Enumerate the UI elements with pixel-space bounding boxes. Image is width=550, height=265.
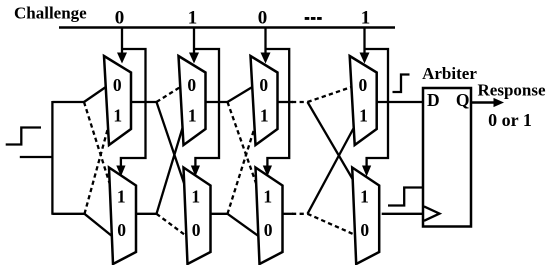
wire stage2 top output: [206, 101, 228, 103]
wire select drop stage 2: [193, 28, 195, 55]
svg-text:1: 1: [113, 105, 122, 125]
wire stage3 bottom output: [283, 213, 294, 215]
wire stage1 bottom output: [136, 213, 157, 215]
wire stage2-stage3 crossing top-to-bottom cross (unselected, dashed): [228, 102, 257, 184]
wire top rail into stage 1: [52, 101, 84, 103]
svg-text:D: D: [427, 90, 440, 110]
wire stage3-stage4 crossing bottom-to-top cross (selected): [308, 128, 354, 214]
svg-text:0: 0: [192, 220, 201, 240]
clock triangle of flip-flop: [424, 206, 440, 220]
svg-text:0 or 1: 0 or 1: [488, 110, 532, 130]
rising-edge pulse symbol at input: [6, 128, 41, 145]
wire stage3-stage4 crossing top-to-bottom cross (selected): [308, 102, 356, 184]
select arrowhead into M3b: [263, 166, 272, 177]
select arrowhead into M2b: [191, 166, 200, 177]
wire select hook to M4b: [365, 49, 389, 167]
wire stage2-stage3 crossing bottom-to-top cross (unselected, dashed): [228, 128, 255, 214]
wire top rail continuation dots: [292, 101, 308, 103]
wire input crossing top-to-top (selected): [84, 87, 106, 102]
svg-text:0: 0: [359, 75, 368, 95]
svg-text:Challenge: Challenge: [14, 4, 87, 23]
svg-text:0: 0: [117, 220, 126, 240]
wire stage3-stage4 crossing bottom-to-bottom (unselected, dashed): [308, 214, 358, 236]
mux M1a (top path) stage 1: [104, 56, 131, 145]
svg-text:Response: Response: [478, 80, 546, 99]
wire stage1 top output: [131, 101, 157, 103]
select arrowhead into M3a: [261, 53, 271, 64]
wire input splitter vertical: [51, 101, 53, 215]
mux M4a (top path) stage 4: [350, 56, 377, 145]
svg-text:1: 1: [359, 105, 368, 125]
wire select drop stage 4: [363, 28, 365, 55]
wire stage1-stage2 crossing top-to-bottom cross (selected): [157, 102, 185, 184]
svg-text:1: 1: [188, 8, 198, 29]
wire response output: [471, 101, 495, 104]
wire stage2-stage3 crossing bottom-to-bottom (selected): [228, 214, 259, 236]
rising-edge pulse symbol at clock input: [388, 188, 423, 206]
svg-text:1: 1: [117, 186, 126, 206]
svg-text:Q: Q: [456, 90, 470, 110]
svg-text:1: 1: [188, 105, 197, 125]
svg-text:0: 0: [115, 8, 125, 29]
mux M2a (top path) stage 2: [179, 56, 206, 145]
response arrowhead: [494, 98, 505, 107]
wire input crossing bottom-to-bottom (selected): [85, 214, 112, 236]
wire stage3-stage4 crossing top-to-top (unselected, dashed): [308, 87, 352, 102]
mux M4b (bottom path) stage 4: [352, 168, 379, 265]
select arrowhead into M2a: [189, 53, 199, 64]
wire select hook to M3b: [266, 49, 290, 167]
svg-text:0: 0: [187, 75, 196, 95]
svg-text:1: 1: [263, 186, 272, 206]
mux M2b (bottom path) stage 2: [184, 168, 211, 265]
svg-text:0: 0: [258, 8, 268, 29]
svg-text:1: 1: [191, 186, 200, 206]
wire last bottom output to clock: [382, 213, 423, 215]
wire bottom rail into stage 1: [52, 213, 84, 215]
wire stage2-stage3 crossing top-to-top (selected): [228, 87, 253, 102]
wire select drop stage 3: [264, 28, 266, 55]
mux M1b (bottom path) stage 1: [109, 168, 136, 265]
rising-edge pulse symbol at D input: [393, 75, 410, 93]
svg-text:1: 1: [360, 186, 369, 206]
svg-text:0: 0: [264, 220, 273, 240]
select arrowhead into M4b: [362, 166, 371, 177]
wire input crossing bottom-to-top cross (unselected, dashed): [85, 128, 109, 214]
svg-text:0: 0: [360, 220, 369, 240]
wire bottom rail continuation dots: [292, 213, 308, 215]
svg-text:1: 1: [260, 105, 269, 125]
mux M3a (top path) stage 3: [251, 56, 278, 145]
wire select drop stage 1: [121, 28, 123, 55]
arbiter D flip-flop box: [423, 88, 471, 227]
svg-text:Arbiter: Arbiter: [422, 64, 477, 83]
wire stage1-stage2 crossing bottom-to-top cross (selected): [157, 128, 183, 214]
select arrowhead into M1b: [116, 166, 125, 177]
ellipsis dashes on challenge row: [305, 17, 310, 20]
wire input stub: [20, 156, 53, 158]
wire select hook to M1b: [121, 49, 146, 167]
wire last top output to D: [377, 101, 423, 103]
wire challenge bus: [59, 26, 395, 29]
mux M3b (bottom path) stage 3: [256, 168, 283, 265]
wire input crossing top-to-bottom cross (unselected, dashed): [84, 102, 110, 184]
svg-text:0: 0: [259, 75, 268, 95]
svg-text:0: 0: [113, 75, 122, 95]
wire select hook to M2b: [194, 49, 219, 167]
wire stage1-stage2 crossing top-to-top (unselected, dashed): [157, 87, 181, 102]
svg-text:1: 1: [361, 8, 371, 29]
select arrowhead into M4a: [360, 53, 370, 64]
wire stage1-stage2 crossing bottom-to-bottom (unselected, dashed): [157, 214, 187, 236]
wire stage3 top output: [278, 101, 294, 103]
wire stage2 bottom output: [211, 213, 228, 215]
select arrowhead into M1a: [117, 53, 127, 64]
